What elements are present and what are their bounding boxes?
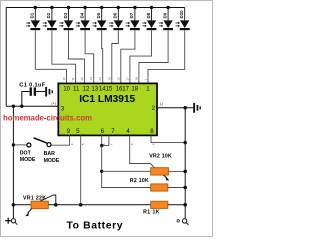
svg-text:D2: D2 [46, 12, 51, 18]
wire battery + rail (left vertical) [12, 106, 14, 218]
battery - terminal [182, 219, 186, 223]
svg-text:D10: D10 [179, 10, 184, 18]
svg-text:15: 15 [106, 85, 113, 92]
wire IC pin 5 down to bottom rail [80, 135, 82, 204]
wire ref node to VR2 left [102, 170, 151, 172]
junction dot rail D3 [67, 6, 70, 9]
junction dot rail D1 [34, 6, 37, 9]
junction dot rail D8 [150, 6, 153, 9]
LED D10 [176, 8, 190, 31]
svg-text:16: 16 [116, 77, 120, 81]
svg-text:1: 1 [144, 79, 148, 81]
LED D4 [76, 8, 90, 31]
svg-text:D8: D8 [146, 12, 151, 18]
svg-text:11: 11 [71, 77, 75, 80]
svg-text:18: 18 [131, 85, 138, 92]
svg-text:10: 10 [63, 85, 70, 92]
wire IC pin 7 jog to pin 6 node [102, 135, 109, 145]
node dot pin5/rail [79, 203, 83, 207]
wire D3 cathode to IC pin 12 [69, 30, 85, 83]
svg-text:11: 11 [73, 85, 80, 92]
svg-text:14: 14 [98, 77, 102, 81]
ground (pin 2 / negative) [193, 103, 201, 113]
svg-text:13: 13 [89, 77, 93, 81]
svg-text:To Battery: To Battery [67, 220, 123, 231]
wire D9 cathode to IC pin 18 [139, 30, 168, 83]
svg-text:MODE: MODE [20, 157, 36, 163]
svg-text:IC1 LM3915: IC1 LM3915 [79, 94, 135, 105]
svg-text:D9: D9 [162, 12, 167, 18]
wire IC pin 9 to mode switch [51, 135, 70, 145]
wire D1 cathode to IC pin 10 [35, 30, 66, 83]
border frame [1, 1, 213, 237]
node dot VR2/rail [183, 170, 187, 174]
svg-text:15: 15 [107, 77, 111, 81]
LED D3 [59, 8, 73, 31]
switch S1 mode (DOT/BAR) [27, 143, 31, 147]
node dot pin2/right rail junction [183, 106, 187, 110]
LED D6 [109, 8, 123, 31]
LED D9 [159, 8, 173, 31]
potentiometer VR1 22K [31, 201, 48, 209]
svg-text:17: 17 [122, 85, 129, 92]
svg-text:4: 4 [130, 143, 134, 145]
svg-text:(-): (-) [160, 102, 164, 106]
LED D1 [26, 8, 40, 31]
node dot left rail/bottom rail [12, 203, 16, 207]
svg-text:D5: D5 [96, 12, 101, 18]
svg-text:17: 17 [125, 77, 129, 81]
LED D2 [43, 8, 57, 31]
wire bottom rail middle segment [48, 204, 150, 206]
label + [5, 218, 11, 224]
wire D7 cathode to IC pin 16 [121, 30, 135, 83]
svg-text:D1: D1 [30, 12, 35, 18]
svg-text:D3: D3 [63, 12, 68, 18]
op-amp/IC U1: IC1 LM3915 body [58, 83, 157, 135]
wire VR2 right to rail [168, 170, 185, 172]
node dot left rail top junction [12, 105, 15, 108]
node dot R2/rail [183, 186, 187, 190]
wire IC pin 6 down [101, 135, 103, 145]
node dot VR1 wiper/rail [54, 203, 58, 207]
LED D8 [142, 8, 156, 31]
LED D7 [126, 8, 140, 31]
LED D5 [93, 8, 107, 31]
wire +V left vertical drop [5, 8, 7, 107]
wire +V feed to IC pin 3 [6, 105, 58, 107]
wire D6 cathode to IC pin 15 [112, 30, 119, 83]
svg-text:homemade-circuits.com: homemade-circuits.com [3, 114, 92, 123]
node dot pins 6+7 [100, 144, 103, 147]
wire negative rail (right vertical) [184, 108, 186, 219]
svg-text:12: 12 [80, 77, 84, 81]
svg-text:10: 10 [62, 77, 66, 81]
ground (C1) [45, 87, 53, 97]
junction dot rail D5 [100, 6, 103, 9]
svg-text:D4: D4 [79, 12, 84, 18]
svg-text:(+): (+) [52, 101, 56, 105]
svg-text:8: 8 [151, 143, 155, 145]
wire IC pin 8 to negative rail [151, 135, 185, 142]
node dot +V/C1 junction [20, 105, 23, 108]
svg-text:BAR: BAR [44, 151, 55, 157]
wire IC pin 4 to VR2 wiper [130, 135, 155, 168]
svg-text:5: 5 [81, 143, 85, 145]
wire IC pin 2 to ground [157, 107, 193, 109]
node dot ref/VR2 [100, 170, 103, 173]
wire D2 cathode to IC pin 11 [52, 30, 76, 83]
wire R1 right to rail [168, 204, 185, 206]
resistor R1 1K [151, 201, 168, 208]
wire D10 cathode to IC pin 1 [148, 30, 185, 83]
node dot pin8/rail [184, 141, 187, 144]
junction dot rail D4 [83, 6, 86, 9]
svg-text:18: 18 [134, 77, 138, 81]
wire D8 cathode to IC pin 17 [130, 30, 152, 83]
wire DOT contact to +V rail [13, 144, 26, 146]
svg-text:C1 0.1uF: C1 0.1uF [19, 83, 45, 89]
tiny bottom pin stub labels [70, 143, 155, 145]
junction dot rail D2 [50, 6, 53, 9]
node dot rail/DOT contact [12, 143, 15, 146]
wire D4 cathode to IC pin 13 [85, 30, 94, 83]
junction dot rail D9 [166, 6, 169, 9]
junction dot rail D6 [117, 6, 120, 9]
node dot R1/rail [183, 203, 187, 207]
svg-text:13: 13 [91, 85, 98, 92]
junction dot rail D7 [133, 6, 136, 9]
svg-text:MODE: MODE [44, 158, 60, 164]
svg-text:R2 10K: R2 10K [130, 178, 149, 184]
pin numbers top row [63, 85, 150, 92]
svg-text:D7: D7 [129, 12, 134, 18]
svg-text:VR2 10K: VR2 10K [149, 154, 172, 160]
resistor R2 10K [151, 184, 168, 191]
wire LED anode +V rail (top) [6, 7, 185, 9]
svg-text:12: 12 [83, 85, 90, 92]
svg-text:9: 9 [70, 143, 74, 145]
svg-text:7: 7 [109, 143, 113, 145]
svg-text:D6: D6 [113, 12, 118, 18]
wire R2 right to rail [168, 187, 185, 189]
capacitor C1 0.1uF [22, 92, 30, 107]
svg-text:R1 1K: R1 1K [143, 210, 160, 216]
pin numbers bottom row 9 5 6 7 4 8 [67, 128, 155, 135]
svg-text:DOT: DOT [20, 150, 32, 156]
wire ref node down to R2 [102, 146, 151, 188]
wire bottom rail left segment [13, 204, 31, 206]
wire D5 cathode to IC pin 14 [102, 30, 103, 83]
svg-text:VR1 22K: VR1 22K [23, 196, 46, 202]
battery + terminal [11, 219, 15, 223]
label - (small o) [177, 220, 179, 222]
potentiometer VR2 10K [151, 168, 169, 175]
